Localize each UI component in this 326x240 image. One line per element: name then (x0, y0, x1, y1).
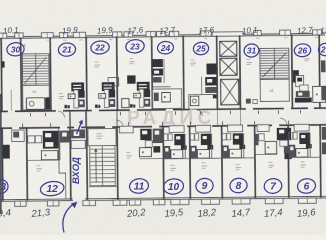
svg-text:19,5: 19,5 (164, 207, 184, 220)
elevator shaft 2 (220, 58, 237, 75)
bath under stairs (26, 98, 45, 110)
stairwell A (22, 54, 49, 86)
circle 8 (229, 177, 248, 194)
elevator shaft 3 (221, 79, 239, 105)
top band room area (1, 34, 326, 111)
unit 26 fixtures (293, 70, 299, 83)
svg-text:ВХОД: ВХОД (71, 157, 82, 184)
unit 22 tub right (122, 99, 129, 108)
circle 11 (129, 178, 150, 195)
vestibule fixtures (71, 129, 85, 138)
circle 13 (0, 179, 9, 195)
circle 22 (90, 40, 110, 55)
unit 25 fixtures (206, 63, 216, 74)
stairwell B (260, 48, 289, 79)
unit 30 partition (10, 90, 12, 111)
unit 30 marks (1, 61, 4, 68)
arrow lower (63, 203, 75, 232)
svg-text:22: 22 (94, 43, 105, 53)
svg-text:25: 25 (195, 44, 206, 54)
svg-text:12: 12 (320, 26, 326, 36)
bottom outer wall (1, 196, 326, 200)
svg-text:10: 10 (168, 182, 180, 193)
unit 22 upper block (108, 77, 119, 86)
svg-text:9,4: 9,4 (0, 207, 11, 219)
circle 9 (195, 177, 214, 194)
circle 10 (163, 178, 185, 196)
door arcs corridor (116, 120, 123, 127)
svg-text:12,7: 12,7 (159, 25, 176, 35)
svg-text:30: 30 (11, 44, 21, 54)
stair lobby (23, 85, 50, 110)
svg-text:24: 24 (160, 43, 171, 53)
circle 25 (193, 42, 209, 56)
bottom band top wall (0, 124, 326, 129)
unit 23 tub right (155, 99, 163, 109)
circle 7 (263, 178, 282, 195)
unit 23 upper block (127, 75, 136, 84)
top band unit walls (0, 38, 2, 112)
window size marks (19, 39, 22, 42)
vestibule walls through corridor (69, 111, 70, 128)
unit 9 fixtures (196, 125, 211, 132)
room below stairs B (260, 79, 289, 101)
svg-text:10,1: 10,1 (3, 25, 19, 35)
svg-text:27: 27 (320, 45, 326, 55)
svg-text:12: 12 (47, 184, 59, 195)
svg-text:21,3: 21,3 (30, 207, 51, 220)
circle 23 (125, 39, 145, 54)
unit 12 partition (59, 128, 66, 199)
circle 6 (297, 178, 317, 195)
svg-text:20,2: 20,2 (125, 207, 146, 220)
unit 22 fixtures (102, 82, 115, 91)
svg-text:18,2: 18,2 (197, 207, 217, 220)
elevator shaft 1 (220, 41, 237, 56)
svg-text:23: 23 (129, 41, 140, 51)
svg-text:19,9: 19,9 (62, 25, 79, 35)
circle 24 (157, 41, 174, 55)
unit 23 fixtures (137, 82, 150, 91)
svg-text:17,6: 17,6 (198, 25, 215, 35)
elevator shaft head (212, 32, 243, 37)
unit 8 fixtures (228, 125, 243, 132)
svg-text:19,6: 19,6 (296, 207, 316, 220)
right partial unit top (321, 60, 326, 72)
scan edge line (0, 94, 2, 214)
svg-text:26: 26 (297, 45, 308, 55)
circle 26 (294, 43, 312, 57)
unit 7 fixtures (257, 125, 269, 132)
unit 6 fixtures (294, 124, 309, 131)
stairwell C landing (88, 128, 116, 145)
area marks top (59, 95, 65, 98)
svg-text:17,4: 17,4 (263, 207, 283, 220)
svg-text:19,9: 19,9 (97, 25, 114, 35)
unit 24 fixtures (152, 59, 163, 67)
circle 12 (40, 180, 65, 197)
svg-text:13: 13 (0, 182, 6, 193)
svg-text:9: 9 (202, 181, 208, 192)
circle 27 (318, 43, 326, 57)
windows top (0, 33, 7, 38)
corridor ticks (29, 113, 32, 117)
circle 30 (6, 42, 24, 57)
circle 21 (58, 42, 76, 57)
svg-text:8: 8 (236, 181, 242, 192)
arrow upper (77, 121, 83, 134)
corridor wall of top band (0, 107, 326, 112)
area marks bottom (37, 167, 43, 170)
scan noise (0, 0, 1, 1)
svg-text:21: 21 (61, 45, 72, 55)
svg-text:6: 6 (304, 181, 310, 192)
unit 31 corridor boxes (246, 99, 251, 104)
unit 12 fixtures (28, 136, 35, 143)
circle 31 (243, 43, 259, 57)
corridor crossing walls (86, 111, 87, 127)
svg-text:10,1: 10,1 (242, 25, 258, 35)
svg-text:14,7: 14,7 (231, 207, 251, 220)
top outer wall (0, 33, 325, 37)
unit 13 fixtures (3, 145, 10, 159)
bottom band unit walls (1, 128, 3, 201)
unit 21 fixtures (71, 82, 84, 91)
unit 11 fixtures (120, 126, 134, 133)
windows bottom (15, 201, 26, 206)
bottom right partial fixtures (322, 127, 326, 140)
svg-text:11: 11 (134, 181, 145, 192)
bottom band room area (2, 125, 326, 202)
stairwell C treads (90, 146, 116, 186)
svg-text:12,7: 12,7 (297, 25, 314, 35)
unit 10 fixtures (169, 126, 184, 133)
stair up arrow (95, 150, 97, 182)
svg-text:17,6: 17,6 (127, 25, 144, 35)
svg-text:31: 31 (247, 46, 257, 56)
entrance door gap (73, 198, 85, 201)
